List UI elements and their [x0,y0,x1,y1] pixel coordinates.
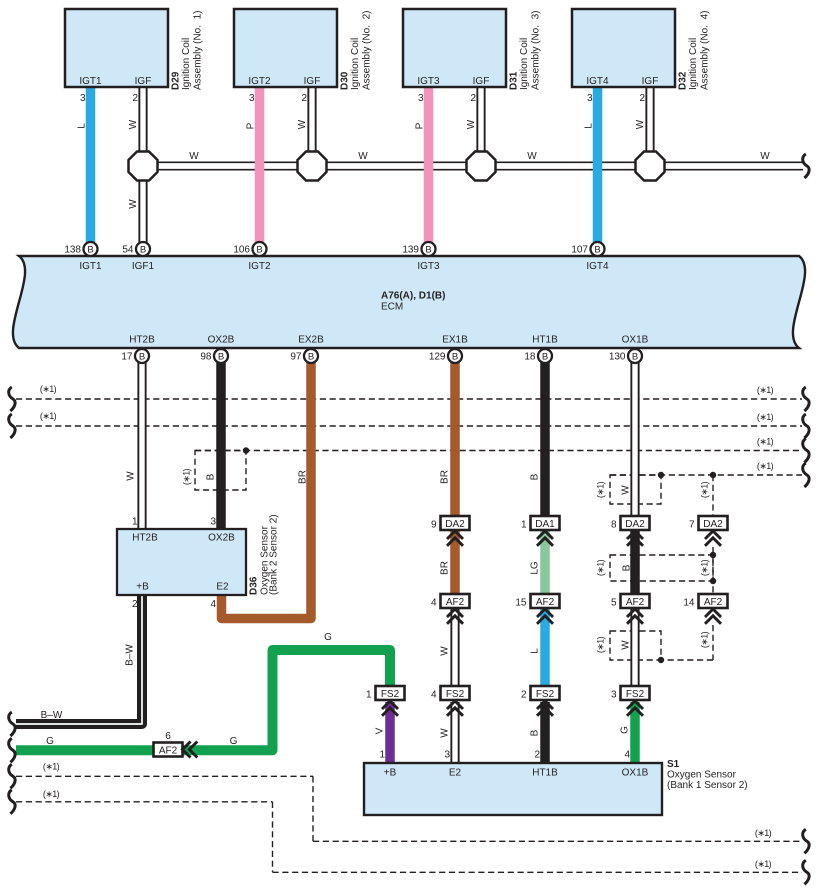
svg-text:W: W [466,119,477,129]
svg-text:1: 1 [366,690,372,701]
svg-text:139: 139 [402,245,419,256]
svg-text:W: W [440,728,451,738]
svg-text:AF2: AF2 [159,746,178,757]
svg-text:(Bank 2 Sensor 2): (Bank 2 Sensor 2) [269,514,280,595]
svg-text:B: B [308,351,314,362]
svg-text:B: B [139,351,145,362]
svg-text:W: W [297,119,308,129]
svg-text:Ignition Coil: Ignition Coil [688,38,699,90]
svg-text:2: 2 [301,93,307,104]
svg-text:(∗1): (∗1) [700,631,710,648]
svg-text:(∗1): (∗1) [596,636,606,653]
svg-text:3: 3 [444,750,450,761]
svg-text:Assembly (No. 1): Assembly (No. 1) [193,11,204,90]
svg-text:97: 97 [290,352,302,363]
svg-text:4: 4 [431,690,437,701]
svg-text:(∗1): (∗1) [43,789,60,799]
svg-text:B–W: B–W [41,710,63,721]
svg-text:B: B [542,351,548,362]
svg-text:OX1B: OX1B [622,335,649,346]
svg-text:5: 5 [611,598,617,609]
svg-text:W: W [128,199,139,209]
svg-text:AF2: AF2 [446,597,465,608]
svg-text:2: 2 [132,599,138,610]
svg-text:W: W [621,485,632,495]
svg-text:HT2B: HT2B [129,335,155,346]
svg-text:Assembly (No. 3): Assembly (No. 3) [531,11,542,90]
svg-text:1: 1 [132,517,138,528]
svg-text:Assembly (No. 2): Assembly (No. 2) [362,11,373,90]
svg-text:OX1B: OX1B [622,768,649,779]
svg-text:DA1: DA1 [535,519,555,530]
svg-text:BR: BR [440,470,451,484]
svg-text:B: B [140,244,146,255]
svg-text:OX2B: OX2B [208,335,235,346]
svg-text:Oxygen Sensor: Oxygen Sensor [667,770,737,781]
svg-text:D30: D30 [340,71,351,90]
svg-text:D29: D29 [171,71,182,90]
svg-text:BR: BR [440,561,451,575]
svg-text:W: W [440,646,451,656]
svg-text:IGT1: IGT1 [79,261,102,272]
svg-text:(∗1): (∗1) [755,828,772,838]
svg-text:W: W [527,151,537,162]
svg-text:7: 7 [689,520,695,531]
svg-text:W: W [760,151,770,162]
svg-text:(∗1): (∗1) [40,384,57,394]
svg-text:B: B [530,473,541,480]
svg-text:B: B [632,351,638,362]
svg-text:FS2: FS2 [536,689,555,700]
svg-text:(∗1): (∗1) [757,437,774,447]
svg-text:3: 3 [80,93,86,104]
svg-text:FS2: FS2 [446,689,465,700]
svg-text:17: 17 [121,352,133,363]
svg-text:2: 2 [132,93,138,104]
svg-text:W: W [126,471,137,481]
svg-text:A76(A), D1(B): A76(A), D1(B) [381,291,445,302]
svg-text:HT1B: HT1B [532,768,558,779]
svg-text:EX2B: EX2B [298,335,324,346]
svg-text:DA2: DA2 [703,519,723,530]
svg-text:2: 2 [534,750,540,761]
svg-text:3: 3 [249,93,255,104]
svg-text:BR: BR [298,470,309,484]
svg-text:8: 8 [611,520,617,531]
svg-text:W: W [621,640,632,650]
svg-text:W: W [635,119,646,129]
svg-text:1: 1 [521,520,527,531]
svg-text:ECM: ECM [381,302,403,313]
svg-text:V: V [375,727,386,734]
svg-text:138: 138 [64,245,81,256]
svg-text:IGF: IGF [642,76,659,87]
svg-text:IGT3: IGT3 [417,261,440,272]
svg-text:129: 129 [429,352,446,363]
svg-text:DA2: DA2 [445,519,465,530]
svg-text:15: 15 [515,598,527,609]
svg-text:HT1B: HT1B [532,335,558,346]
svg-text:IGF1: IGF1 [132,261,155,272]
svg-text:L: L [77,123,88,129]
svg-text:AF2: AF2 [704,597,723,608]
svg-text:AF2: AF2 [536,597,555,608]
svg-text:D32: D32 [678,71,689,90]
svg-text:B: B [594,244,600,255]
svg-text:(∗1): (∗1) [700,481,710,498]
svg-text:3: 3 [587,93,593,104]
svg-text:2: 2 [639,93,645,104]
svg-text:D36: D36 [249,576,260,595]
svg-text:B–W: B–W [125,644,136,666]
svg-text:DA2: DA2 [625,519,645,530]
svg-text:IGT3: IGT3 [417,76,440,87]
svg-text:+B: +B [136,582,149,593]
svg-text:G: G [620,726,631,734]
svg-text:E2: E2 [449,768,462,779]
svg-text:6: 6 [165,731,171,742]
svg-text:P: P [415,122,426,129]
svg-text:14: 14 [683,598,695,609]
svg-text:3: 3 [418,93,424,104]
svg-text:9: 9 [431,520,437,531]
svg-text:FS2: FS2 [626,689,645,700]
svg-text:AF2: AF2 [626,597,645,608]
svg-text:98: 98 [200,352,212,363]
svg-text:IGF: IGF [304,76,321,87]
svg-text:(∗1): (∗1) [182,468,192,485]
svg-text:1: 1 [379,750,385,761]
svg-text:EX1B: EX1B [442,335,468,346]
svg-text:B: B [87,244,93,255]
svg-text:L: L [584,123,595,129]
svg-text:130: 130 [609,352,626,363]
svg-text:S1: S1 [667,759,680,770]
svg-text:IGT4: IGT4 [586,261,609,272]
svg-text:B: B [218,351,224,362]
svg-text:+B: +B [384,768,397,779]
svg-text:(∗1): (∗1) [40,411,57,421]
svg-text:54: 54 [122,245,134,256]
svg-text:IGT1: IGT1 [79,76,102,87]
svg-text:Ignition Coil: Ignition Coil [519,38,530,90]
svg-text:(∗1): (∗1) [757,385,774,395]
svg-text:G: G [230,736,238,747]
svg-text:P: P [246,122,257,129]
svg-text:IGF: IGF [473,76,490,87]
svg-text:106: 106 [233,245,250,256]
svg-text:4: 4 [431,598,437,609]
svg-text:W: W [189,151,199,162]
svg-text:(Bank 1 Sensor 2): (Bank 1 Sensor 2) [667,780,748,791]
svg-text:G: G [46,736,54,747]
svg-text:3: 3 [611,690,617,701]
svg-text:2: 2 [521,690,527,701]
svg-text:LG: LG [530,561,541,575]
svg-text:W: W [128,119,139,129]
svg-text:(∗1): (∗1) [596,481,606,498]
svg-text:(∗1): (∗1) [596,559,606,576]
svg-text:B: B [530,729,541,736]
svg-text:B: B [622,564,633,571]
svg-text:W: W [358,151,368,162]
svg-text:(∗1): (∗1) [700,559,710,576]
svg-text:2: 2 [470,93,476,104]
svg-text:FS2: FS2 [381,689,400,700]
svg-text:D31: D31 [509,71,520,90]
svg-text:B: B [206,473,217,480]
svg-text:Ignition Coil: Ignition Coil [181,38,192,90]
svg-text:(∗1): (∗1) [755,859,772,869]
svg-text:B: B [425,244,431,255]
svg-text:107: 107 [571,245,588,256]
svg-text:IGT4: IGT4 [586,76,609,87]
svg-text:B: B [452,351,458,362]
svg-text:(∗1): (∗1) [757,461,774,471]
svg-text:(∗1): (∗1) [43,762,60,772]
svg-text:18: 18 [524,352,536,363]
svg-text:B: B [256,244,262,255]
svg-text:HT2B: HT2B [132,533,158,544]
svg-text:IGF: IGF [135,76,152,87]
svg-text:OX2B: OX2B [208,533,235,544]
svg-text:Assembly (No. 4): Assembly (No. 4) [700,11,711,90]
svg-text:Ignition Coil: Ignition Coil [350,38,361,90]
svg-text:4: 4 [210,599,216,610]
svg-text:4: 4 [624,750,630,761]
svg-text:(∗1): (∗1) [757,412,774,422]
svg-text:L: L [530,648,541,654]
svg-text:E2: E2 [216,582,229,593]
svg-text:G: G [324,632,332,643]
svg-text:IGT2: IGT2 [248,76,271,87]
svg-text:IGT2: IGT2 [248,261,271,272]
svg-text:3: 3 [210,517,216,528]
